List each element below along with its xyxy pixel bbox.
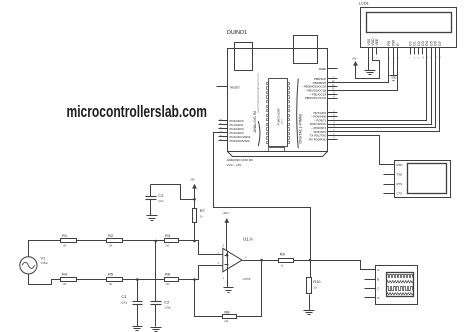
wire R2 to R3 with node: [123, 240, 165, 242]
capacitor C3: [146, 185, 165, 216]
svg-text:RXD: RXD: [397, 163, 403, 167]
LCD pin 9 D2: [417, 41, 421, 58]
svg-text:DUINO1: DUINO1: [227, 30, 247, 36]
Arduino pin 7 PD7/AIN1: [313, 111, 337, 115]
Arduino pin A4 PC4/ADC4/SDA: [219, 134, 251, 139]
wire LCD D5 to Arduino pin 4: [338, 53, 432, 125]
Arduino pin 6 ~ PD6/AIN0: [311, 115, 338, 119]
svg-text:1k: 1k: [281, 265, 284, 268]
LCD pin 1 VSS: [367, 38, 371, 58]
Arduino pin A5 PC5/ADC5/SCL: [219, 138, 251, 143]
svg-text:10k: 10k: [313, 287, 318, 290]
LCD pin 6 E: [396, 43, 400, 59]
svg-text:2k2: 2k2: [166, 283, 171, 286]
LCD pin 7 D0: [408, 41, 412, 58]
svg-text:VSINE: VSINE: [41, 262, 49, 265]
svg-text:LM358: LM358: [243, 278, 251, 281]
svg-text:R7: R7: [200, 208, 206, 213]
svg-text:10: 10: [423, 56, 425, 58]
svg-text:microcontrollerslab.com: microcontrollerslab.com: [67, 103, 208, 121]
Arduino pin 12 PB4/MISO: [313, 81, 338, 85]
svg-text:R3: R3: [165, 233, 171, 238]
Arduino USB connector: [235, 43, 253, 71]
Arduino board body: [228, 49, 328, 152]
svg-text:GND: GND: [391, 78, 396, 80]
svg-text:2k2: 2k2: [224, 320, 229, 323]
wire LCD RW to GND terminal: [393, 53, 395, 76]
LCD pin 3 VEE: [375, 38, 379, 58]
svg-text:D: D: [377, 296, 380, 300]
Arduino pin A3 PC3/ADC3: [219, 130, 245, 135]
svg-text:R10: R10: [313, 279, 321, 284]
svg-text:PB0/ICP1/CLKO: PB0/ICP1/CLKO: [305, 96, 327, 100]
oscilloscope channel C: [365, 287, 381, 291]
wire node to op-amp non-inverting input: [195, 241, 223, 255]
svg-text:+5V: +5V: [352, 57, 357, 60]
oscilloscope trace C: [387, 287, 413, 291]
Arduino pin 13 PB5/SCK: [314, 77, 337, 81]
wire V1 bottom to R4: [29, 274, 61, 285]
wire LCD E to Arduino pin 10: [338, 53, 398, 91]
svg-text:D7: D7: [438, 41, 442, 45]
svg-text:2200p: 2200p: [164, 307, 171, 310]
svg-text:RS: RS: [387, 40, 391, 45]
LCD pin 8 D1: [413, 41, 417, 58]
wire R4 to R5: [77, 279, 107, 281]
svg-text:1: 1: [245, 256, 247, 259]
Arduino pin A1 PC1/ADC1: [219, 122, 245, 127]
LCD pin 11 D4: [425, 41, 429, 58]
Arduino pin 3 ~ PD3/INT1: [311, 126, 337, 130]
virtual terminal instrument: [395, 161, 451, 198]
svg-text:4: 4: [223, 277, 225, 280]
svg-text:7: 7: [410, 57, 412, 58]
svg-text:R6: R6: [165, 272, 171, 277]
svg-text:ANALOG IN: ANALOG IN: [252, 111, 257, 132]
resistor R8: [223, 309, 237, 323]
wire LCD D6 to Arduino pin 3: [338, 53, 436, 128]
svg-text:R9: R9: [280, 251, 286, 256]
Arduino pin 4 PD4/T0/XCK: [310, 122, 338, 126]
svg-text:2k2: 2k2: [166, 245, 171, 248]
Arduino pin 10 ~ PB2/SS/OC1B: [305, 89, 337, 93]
Arduino pin A2 PC2/ADC2: [219, 126, 245, 131]
svg-text:A: A: [377, 268, 379, 272]
svg-text:CTS: CTS: [397, 191, 403, 195]
ground under C1: [133, 326, 143, 328]
Arduino bottom notch: [269, 148, 285, 152]
LCD pin 4 RS: [387, 40, 391, 58]
wire R5 to R6 with node: [123, 279, 165, 281]
ground under C2: [151, 327, 162, 329]
oscilloscope trace B: [387, 281, 413, 283]
svg-text:C2: C2: [164, 299, 170, 304]
terminal pin RXD: [384, 163, 403, 167]
svg-text:1: 1: [369, 57, 371, 58]
svg-text:2: 2: [218, 262, 220, 265]
svg-text:R2: R2: [108, 233, 114, 238]
wire op-amp output node to Arduino A3: [214, 133, 311, 261]
resistor R3: [165, 233, 179, 247]
oscilloscope trace D: [387, 293, 413, 295]
svg-text:DIGITAL (~PWM): DIGITAL (~PWM): [299, 113, 303, 143]
svg-text:9: 9: [419, 57, 421, 58]
svg-text:PC5/ADC5/SCL: PC5/ADC5/SCL: [230, 139, 251, 143]
svg-text:8: 8: [414, 57, 416, 58]
LCD pin 2 VDD: [371, 38, 375, 59]
svg-text:www.TheEngineeringProjects.com: www.TheEngineeringProjects.com: [256, 74, 260, 114]
terminal pin TXD: [384, 173, 403, 177]
wire LCD D7 to Arduino pin 2: [338, 53, 440, 132]
svg-text:ARDUINO UNO R3: ARDUINO UNO R3: [227, 158, 253, 162]
svg-text:ATMEGA328P: ATMEGA328P: [277, 108, 281, 126]
power +5V terminal: [190, 178, 197, 199]
svg-text:2: 2: [373, 57, 375, 58]
wire node to op-amp inverting input: [195, 266, 223, 280]
Arduino pin 9 ~ PB1/OC1A: [310, 92, 338, 96]
svg-text:E: E: [396, 43, 400, 46]
svg-text:8: 8: [223, 245, 225, 248]
oscilloscope instrument: [376, 266, 418, 305]
svg-text:6: 6: [398, 57, 400, 58]
svg-text:AREF: AREF: [319, 67, 327, 71]
LCD pin 10 D3: [421, 41, 425, 58]
wire R6 to node: [179, 279, 195, 281]
resistor R2: [107, 233, 123, 247]
oscilloscope channel D: [365, 296, 381, 300]
power +12V terminal: [222, 211, 229, 250]
svg-text:RTS: RTS: [397, 182, 403, 186]
svg-text:C1: C1: [122, 294, 128, 299]
svg-text:R8: R8: [224, 309, 230, 314]
ground under LCD VSS: [365, 70, 376, 72]
wire op-amp output to R9: [243, 260, 279, 262]
LCD body: [361, 8, 457, 48]
wire LCD D4 to Arduino pin 5: [338, 53, 427, 121]
svg-text:B: B: [377, 278, 379, 282]
ground under C3: [147, 215, 158, 217]
terminal pin CTS: [384, 191, 403, 195]
ground under op-amp: [224, 287, 234, 289]
svg-text:2k: 2k: [200, 216, 203, 219]
oscilloscope trace A: [387, 275, 413, 278]
Arduino pin 2 PD2/INT0: [314, 130, 338, 134]
wire LCD RS to Arduino pin 12: [338, 53, 389, 83]
resistor R9: [279, 251, 294, 267]
wire output node to oscilloscope channel A: [311, 261, 376, 270]
power +5V terminal at LCD: [352, 57, 358, 66]
capacitor C2: [151, 241, 172, 327]
svg-text:RW: RW: [392, 39, 396, 45]
svg-text:10k: 10k: [63, 283, 68, 286]
Arduino board bottom tray: [228, 152, 328, 157]
svg-text:R4: R4: [62, 272, 68, 277]
svg-text:11: 11: [427, 57, 429, 59]
wire LCD VDD to +5V arrow: [356, 53, 380, 79]
svg-text:10k: 10k: [63, 245, 68, 248]
svg-text:VEE: VEE: [375, 38, 379, 46]
wire LCD VSS to ground: [368, 53, 370, 71]
Arduino power connector: [294, 36, 318, 64]
wire inverting node down to R8: [195, 280, 223, 317]
svg-text:LCD1: LCD1: [359, 0, 370, 5]
svg-text:100n: 100n: [158, 200, 164, 203]
Arduino ATMEGA328P chip: [267, 79, 290, 147]
svg-text:3: 3: [377, 57, 379, 58]
terminal pin RTS: [384, 182, 403, 186]
LCD pin 5 RW: [392, 39, 396, 58]
svg-text:1121: 1121: [282, 119, 284, 124]
svg-text:C: C: [377, 287, 380, 291]
op-amp U1:A LM358: [218, 237, 253, 282]
Arduino analog bracket: [258, 121, 260, 146]
resistor R10: [307, 261, 322, 311]
op-amp ground pin wire: [227, 269, 229, 288]
voltage source V1: [20, 257, 48, 274]
svg-text:10k: 10k: [109, 245, 114, 248]
svg-text:10k: 10k: [109, 283, 114, 286]
resistor R7: [193, 200, 206, 241]
svg-text:RESET: RESET: [230, 85, 240, 89]
Arduino pin 0 RX PD0/RXD: [309, 137, 338, 141]
wire R9 to scope node: [294, 260, 361, 262]
ground terminal GND at LCD RW: [390, 76, 398, 81]
Arduino pin 8 PB0/ICP1/CLKO: [305, 96, 338, 100]
svg-text:+12V: +12V: [222, 211, 228, 215]
Arduino digital bracket: [297, 79, 299, 149]
wire R3 to node: [179, 240, 195, 242]
Arduino pin A0 PC0/ADC0: [219, 118, 245, 123]
wire C3 to R7 top node: [151, 185, 195, 200]
svg-text:2200p: 2200p: [121, 302, 128, 305]
svg-text:R5: R5: [108, 272, 114, 277]
LCD pin 14 D7: [438, 41, 442, 58]
wire R1 to R2: [77, 240, 107, 242]
Arduino pin 1 TX PD1/TXD: [310, 134, 338, 138]
resistor R6: [165, 272, 179, 286]
oscilloscope channel A: [365, 268, 380, 272]
svg-text:TXD: TXD: [397, 173, 403, 177]
resistor R4: [61, 272, 77, 286]
wire R8 to output node: [237, 261, 262, 317]
svg-text:VCC→+5V: VCC→+5V: [227, 163, 242, 167]
svg-text:C3: C3: [158, 193, 164, 198]
capacitor C1: [121, 280, 143, 327]
svg-text:+5V: +5V: [190, 178, 195, 181]
Arduino pin AREF AREF: [319, 67, 338, 71]
LCD pin 13 D6: [434, 41, 438, 58]
wire Arduino TXD to terminal RXD: [338, 136, 384, 165]
svg-text:V1: V1: [41, 257, 46, 261]
svg-text:RX PD0/RXD: RX PD0/RXD: [309, 137, 326, 141]
Arduino pin 11 ~ PB3/MOSI/OC2A: [301, 85, 337, 89]
resistor R5: [107, 272, 123, 286]
oscilloscope channel B: [365, 278, 380, 282]
svg-text:U1:A: U1:A: [243, 237, 253, 242]
svg-text:R1: R1: [62, 233, 68, 238]
ground under R10: [304, 310, 315, 312]
LCD pin 12 D5: [429, 41, 433, 58]
LCD screen: [367, 13, 452, 33]
wire V1 top to R1: [29, 241, 61, 257]
Arduino reset pin: [217, 85, 241, 89]
Arduino pin 5 ~ PD5/T1: [314, 118, 337, 122]
resistor R1: [61, 233, 77, 247]
